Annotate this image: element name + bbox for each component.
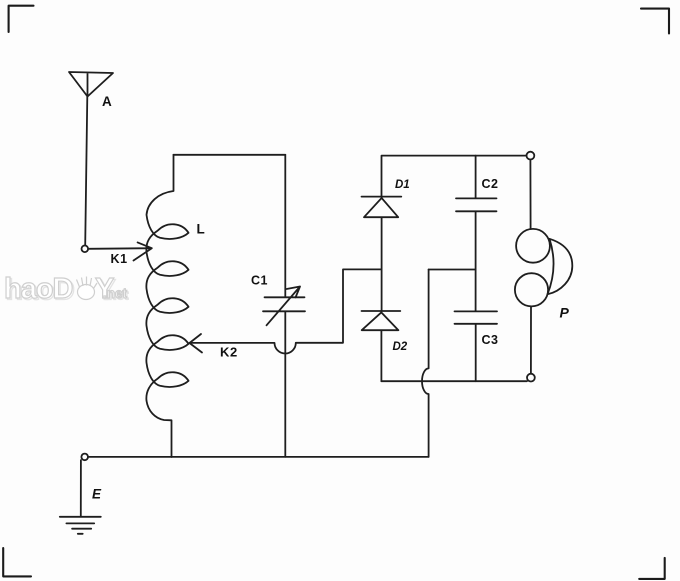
wire bottom rail [381, 380, 527, 382]
earphone P [516, 229, 550, 263]
wire D1 to D2 [381, 217, 383, 310]
wire C1 lower branch [284, 312, 286, 457]
wire antenna lead [85, 97, 87, 246]
wire C1 upper branch [284, 155, 286, 297]
wire output branch with hop [422, 270, 429, 457]
capacitor C2 [456, 198, 497, 211]
capacitor C3 [455, 311, 498, 323]
K1 tap arrow [88, 242, 152, 260]
node E terminal [81, 454, 88, 461]
wire C2 upper stub [475, 156, 477, 198]
svg-text:E: E [92, 487, 102, 502]
wire ground lead [80, 460, 82, 516]
wire K2 with hop [190, 269, 382, 353]
wire C2-C3 junction to output branch [429, 269, 476, 271]
diode D2 [362, 311, 401, 330]
wire C2 to C3 [475, 212, 477, 311]
svg-text:D2: D2 [393, 341, 408, 353]
svg-text:C2: C2 [482, 177, 499, 191]
svg-text:D1: D1 [395, 179, 410, 191]
wire C3 lower stub [475, 324, 477, 381]
wire bottom main [88, 456, 428, 458]
svg-text:C3: C3 [482, 333, 499, 347]
node output terminal bottom [527, 374, 535, 382]
wire right top rail [382, 156, 527, 197]
wire earphone lower lead [530, 307, 532, 374]
svg-text:P: P [560, 305, 570, 321]
K2 tap arrow [190, 334, 203, 353]
wire D2 to bottom rail [380, 330, 382, 381]
diode D1 [362, 197, 402, 218]
wire top-left rail [174, 154, 286, 156]
wire earphone upper lead [529, 160, 531, 229]
svg-text:L: L [197, 222, 205, 237]
svg-text:C1: C1 [251, 274, 268, 288]
svg-text:K1: K1 [111, 252, 128, 266]
node output terminal top [527, 152, 535, 160]
inductor L [146, 155, 188, 457]
ground [60, 517, 101, 534]
svg-text:A: A [102, 94, 112, 109]
capacitor C1 [263, 287, 305, 326]
node K1 terminal [82, 246, 89, 253]
svg-text:K2: K2 [220, 345, 238, 360]
antenna A [69, 72, 113, 97]
